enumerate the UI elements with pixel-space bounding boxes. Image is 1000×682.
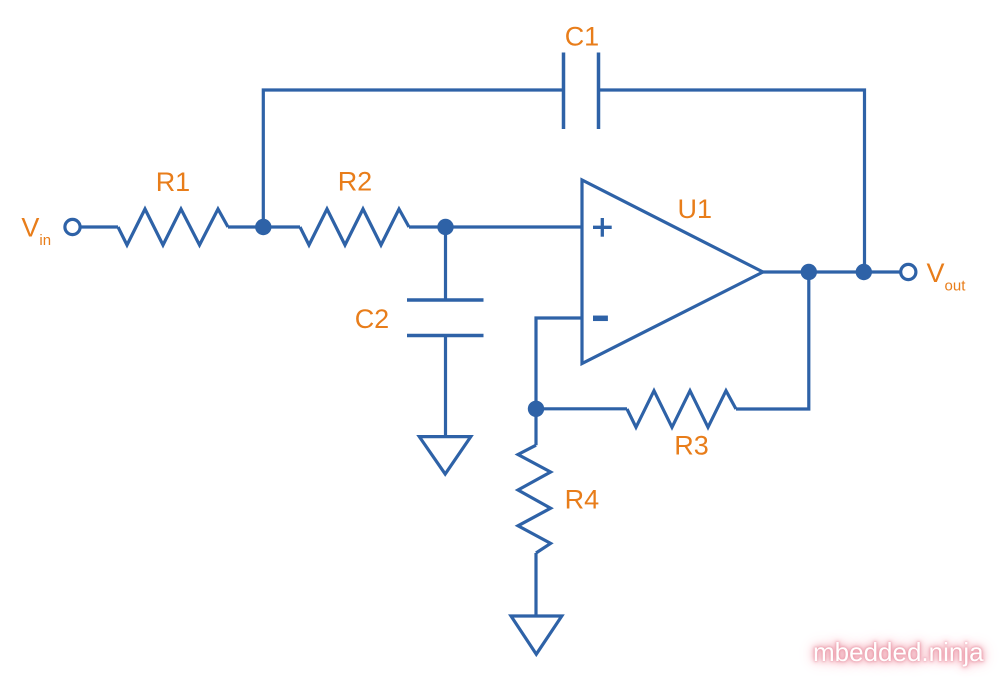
svg-text:C1: C1 (565, 22, 600, 52)
terminal Vin (65, 219, 80, 234)
node C junction dot (528, 401, 544, 417)
wire node B down to C2 (444, 227, 447, 300)
capacitor C2 (407, 300, 484, 336)
wire op-amp output to Vout terminal (763, 270, 901, 273)
resistor R2 (300, 209, 409, 245)
svg-text:Vin: Vin (21, 213, 51, 250)
svg-text:U1: U1 (678, 194, 713, 224)
wire node C to R3 (536, 407, 627, 410)
wire op-amp - input feedback (536, 318, 582, 409)
ground (R4) (511, 616, 562, 654)
capacitor C1 (564, 53, 599, 130)
output junction dot 2 (856, 264, 872, 280)
output junction dot 1 (801, 264, 817, 280)
svg-text:R3: R3 (674, 431, 709, 461)
wire node A to R2 (263, 225, 300, 228)
watermark mbedded.ninja (813, 637, 993, 668)
wire R3 to output node (736, 272, 809, 409)
op-amp U1 (582, 180, 763, 364)
op-amp + pin mark (593, 218, 612, 237)
wire C2 to ground (444, 336, 447, 437)
svg-text:Vout: Vout (927, 258, 967, 295)
node B junction dot (437, 219, 453, 235)
svg-text:R2: R2 (338, 167, 373, 197)
svg-text:C2: C2 (355, 304, 390, 334)
op-amp - pin mark (593, 316, 608, 322)
wire node A up to C1 (263, 90, 563, 227)
ground (C2) (419, 437, 471, 474)
wire R2 to node B (409, 225, 446, 228)
wire R1 to node A (228, 225, 263, 228)
resistor R3 (627, 391, 736, 428)
node A junction dot (255, 219, 271, 235)
wire node C down to R4 (534, 409, 537, 446)
resistor R4 (518, 445, 551, 553)
wire R4 to ground (534, 553, 537, 616)
wire Vin to R1 (81, 225, 119, 228)
svg-text:R4: R4 (565, 485, 600, 515)
terminal Vout (901, 264, 916, 279)
svg-text:R1: R1 (156, 167, 191, 197)
wire C1 to output node (599, 90, 865, 272)
wire node B to op-amp + input (446, 225, 583, 228)
resistor R1 (118, 209, 228, 245)
